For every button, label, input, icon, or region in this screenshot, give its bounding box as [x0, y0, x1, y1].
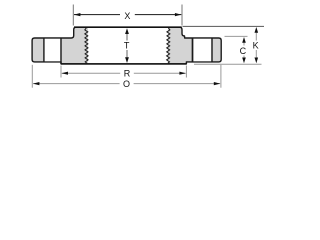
dimension T: stem: [126, 33, 128, 41]
dimension X: line: [74, 14, 120, 16]
thread zigzag left: [85, 28, 88, 63]
svg-text:K: K: [253, 41, 259, 51]
dimension T: arrowheads: [125, 28, 129, 34]
bottom extension line (raised face bottom, shared by C and K): [194, 63, 262, 65]
bolt hole left edge lines: [43, 38, 45, 62]
dimension O: arrowheads: [33, 82, 40, 85]
svg-text:T: T: [124, 40, 130, 50]
dimension C: stem: [243, 43, 245, 46]
bolt hole left (white, section through hole): [45, 39, 61, 61]
hub top edge (solid across bore): [74, 26, 182, 28]
dimension O: extension lines: [31, 65, 33, 88]
dimension O: line: [33, 83, 120, 85]
dimension K: arrowheads: [255, 27, 259, 33]
dimension R: arrowheads: [62, 72, 69, 75]
flange body silhouette (section, gray fill): [32, 27, 221, 64]
dimension X: arrowheads: [74, 13, 81, 16]
threaded bore (white): [88, 28, 168, 63]
dimension C: arrowheads: [242, 37, 246, 43]
dimension C: top extension line: [225, 35, 248, 37]
dimension K: top extension line (from hub top): [183, 25, 265, 27]
dimension R: extension lines: [60, 66, 62, 78]
svg-text:O: O: [123, 79, 130, 89]
dimension R: line: [62, 72, 120, 74]
svg-text:X: X: [124, 11, 130, 21]
dimension X: extension lines: [72, 5, 74, 26]
dimension K: stem: [255, 33, 257, 41]
bolt hole right edge lines: [192, 38, 194, 62]
svg-text:C: C: [240, 46, 247, 56]
svg-text:R: R: [124, 68, 131, 78]
bolt hole right (white, section through hole): [193, 39, 211, 61]
bottom edge across bore (raised face bottom): [61, 63, 186, 65]
thread zigzag right: [167, 28, 170, 63]
